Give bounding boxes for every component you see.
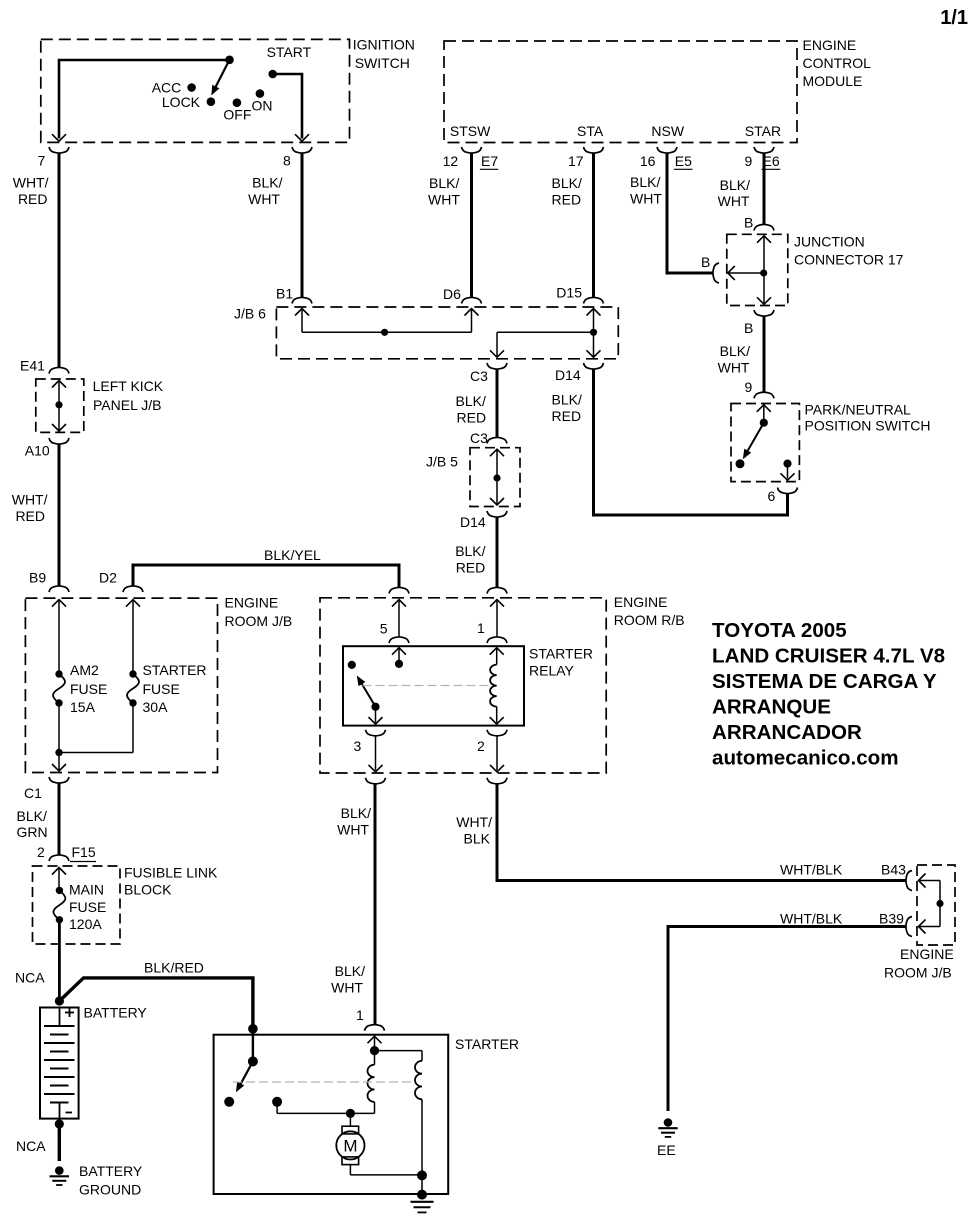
starter pull-in coil — [367, 1036, 379, 1113]
battery — [40, 1005, 147, 1119]
starter switch — [224, 1030, 258, 1107]
junction block J/B 5 — [426, 437, 520, 506]
svg-text:RED: RED — [15, 508, 45, 524]
wire BLK/RED D14 to R/B pin 1 — [455, 517, 507, 594]
fuse MAIN 120A — [53, 868, 106, 932]
svg-text:M: M — [343, 1137, 357, 1156]
page number 1/1 — [940, 7, 968, 29]
svg-text:JUNCTION: JUNCTION — [794, 234, 865, 250]
svg-text:BLK/: BLK/ — [630, 174, 660, 190]
svg-text:RED: RED — [457, 410, 487, 426]
svg-text:B: B — [701, 254, 710, 270]
fusible link block box — [33, 865, 219, 945]
svg-text:LAND CRUISER 4.7L V8: LAND CRUISER 4.7L V8 — [712, 645, 945, 668]
svg-text:A10: A10 — [25, 443, 50, 459]
wire BLK/WHT junction connector to park/neutral pin 9 — [718, 316, 764, 396]
svg-text:17: 17 — [568, 153, 584, 169]
svg-text:30A: 30A — [143, 699, 169, 715]
connector ECM pin 9 E6 (STAR) — [745, 147, 781, 169]
connector D6 — [443, 286, 482, 304]
connector F15 — [49, 855, 69, 861]
engine room R/B box — [320, 594, 685, 773]
svg-text:BLK/: BLK/ — [335, 963, 365, 979]
svg-text:C3: C3 — [470, 368, 488, 384]
svg-text:BLK/: BLK/ — [455, 543, 485, 559]
ignition switch box — [41, 37, 415, 143]
wire ignition internal to pin 7 — [52, 60, 230, 141]
junction connector 17 — [727, 234, 904, 306]
svg-text:BLK/: BLK/ — [429, 175, 459, 191]
connector B (bottom of junction connector) — [744, 310, 774, 336]
wire WHT/BLK EE to B39 — [668, 911, 912, 1112]
svg-text:NCA: NCA — [15, 970, 45, 986]
svg-text:RED: RED — [18, 191, 48, 207]
svg-text:WHT: WHT — [337, 822, 369, 838]
wire BLK/WHT STSW to D6 — [428, 153, 472, 299]
engine control module box — [444, 37, 871, 143]
svg-text:WHT/: WHT/ — [12, 492, 48, 508]
svg-text:C3: C3 — [470, 430, 488, 446]
connector D15 — [556, 285, 603, 304]
svg-text:BLK/: BLK/ — [552, 392, 582, 408]
svg-text:SISTEMA DE CARGA Y: SISTEMA DE CARGA Y — [712, 670, 937, 693]
svg-text:ON: ON — [252, 98, 273, 114]
svg-text:7: 7 — [38, 153, 46, 169]
svg-text:AM2: AM2 — [70, 662, 99, 678]
svg-text:WHT: WHT — [248, 191, 280, 207]
svg-text:1: 1 — [477, 620, 485, 636]
contact OFF — [223, 98, 251, 122]
svg-text:5: 5 — [380, 621, 388, 637]
svg-text:E5: E5 — [675, 153, 692, 169]
svg-text:STARTER: STARTER — [529, 646, 593, 662]
svg-text:FUSE: FUSE — [70, 681, 107, 697]
fuse STARTER 30A — [59, 600, 207, 752]
svg-text:B: B — [744, 320, 753, 336]
contact ON — [252, 89, 273, 113]
node battery positive — [55, 996, 64, 1005]
wire WHT/BLK relay pin 2 to B43 — [456, 783, 912, 890]
connector B (left of junction connector) — [701, 254, 719, 283]
motor M — [336, 1113, 364, 1164]
relay switch — [348, 648, 406, 724]
wire ignition internal START to pin 8 — [273, 74, 309, 141]
svg-text:D2: D2 — [99, 570, 117, 586]
svg-text:EE: EE — [657, 1142, 676, 1158]
svg-text:LOCK: LOCK — [162, 94, 201, 110]
starter ground — [411, 1190, 434, 1213]
connector park/neutral pin 9 — [754, 392, 774, 398]
connector D2 entry arrow — [126, 600, 140, 607]
connector relay pin 3 — [354, 730, 386, 784]
wire motor to starter ground — [350, 1165, 427, 1195]
contact START — [267, 44, 312, 78]
svg-text:GROUND: GROUND — [79, 1182, 141, 1198]
wire NCA battery negative — [16, 1119, 64, 1161]
svg-text:WHT/BLK: WHT/BLK — [780, 862, 843, 878]
svg-text:RED: RED — [552, 192, 582, 208]
connector C3 (J/B6 output) — [470, 363, 507, 384]
svg-text:120A: 120A — [69, 916, 102, 932]
wire WHT/RED pin 7 to E41 — [13, 153, 59, 369]
connector B (top of junction connector) — [744, 215, 774, 231]
starter relay box — [343, 646, 593, 726]
svg-text:STARTER: STARTER — [143, 662, 207, 678]
starter mechanical link — [233, 1081, 415, 1083]
svg-text:automecanico.com: automecanico.com — [712, 747, 899, 770]
starter hold-in coil — [375, 1051, 423, 1176]
svg-text:1: 1 — [356, 1007, 364, 1023]
svg-text:ENGINE: ENGINE — [225, 595, 279, 611]
svg-text:WHT/BLK: WHT/BLK — [780, 911, 843, 927]
svg-text:WHT: WHT — [428, 192, 460, 208]
svg-text:SWITCH: SWITCH — [355, 55, 410, 71]
svg-text:B9: B9 — [29, 570, 46, 586]
svg-text:POSITION SWITCH: POSITION SWITCH — [805, 418, 931, 434]
wire BLK/RED C3 to J/B5 — [456, 369, 498, 447]
connector ECM pin 16 E5 (NSW) — [640, 147, 693, 169]
svg-text:RELAY: RELAY — [529, 663, 575, 679]
svg-text:WHT: WHT — [630, 191, 662, 207]
junction left kick panel J/B — [20, 358, 164, 459]
svg-text:C1: C1 — [24, 785, 42, 801]
connector R/B pin 1 — [477, 600, 507, 643]
svg-text:9: 9 — [745, 153, 753, 169]
svg-text:B43: B43 — [881, 862, 906, 878]
wire BLK/GRN C1 to F15 — [17, 783, 97, 862]
svg-text:15A: 15A — [70, 699, 96, 715]
svg-text:J/B 5: J/B 5 — [426, 454, 458, 470]
svg-text:NCA: NCA — [16, 1138, 46, 1154]
svg-text:IGNITION: IGNITION — [353, 37, 415, 53]
svg-text:STAR: STAR — [745, 123, 781, 139]
svg-text:WHT: WHT — [718, 360, 750, 376]
svg-text:CONTROL: CONTROL — [803, 55, 872, 71]
relay coil — [490, 648, 504, 724]
svg-text:ENGINE: ENGINE — [900, 946, 954, 962]
svg-text:ARRANQUE: ARRANQUE — [712, 696, 831, 719]
connector relay pin 2 — [477, 730, 507, 784]
svg-text:PANEL J/B: PANEL J/B — [93, 397, 161, 413]
svg-text:GRN: GRN — [17, 824, 48, 840]
svg-text:F15: F15 — [72, 844, 96, 860]
svg-text:2: 2 — [37, 844, 45, 860]
svg-text:BLOCK: BLOCK — [124, 882, 172, 898]
svg-text:WHT/: WHT/ — [13, 175, 49, 191]
svg-text:RED: RED — [552, 408, 582, 424]
connector park/neutral pin 6 — [768, 488, 798, 505]
wire BLK/WHT STAR to junction connector B — [718, 153, 764, 226]
svg-text:STARTER: STARTER — [455, 1036, 519, 1052]
svg-text:WHT: WHT — [718, 193, 750, 209]
svg-text:ROOM R/B: ROOM R/B — [614, 612, 685, 628]
svg-text:D15: D15 — [556, 285, 582, 301]
svg-text:BLK/: BLK/ — [456, 393, 486, 409]
svg-text:RED: RED — [456, 559, 486, 575]
svg-text:MODULE: MODULE — [803, 73, 863, 89]
svg-text:J/B 6: J/B 6 — [234, 306, 266, 322]
svg-text:START: START — [267, 44, 312, 60]
svg-text:3: 3 — [354, 738, 362, 754]
ground EE — [657, 1118, 678, 1158]
battery ground — [50, 1163, 143, 1198]
connector D14 (J/B5 output) — [460, 511, 507, 530]
svg-text:B39: B39 — [879, 911, 904, 927]
connector ECM pin 12 E7 (STSW) — [443, 147, 499, 169]
svg-text:16: 16 — [640, 153, 656, 169]
svg-text:1/1: 1/1 — [940, 7, 968, 29]
svg-text:D14: D14 — [460, 514, 486, 530]
svg-text:FUSE: FUSE — [69, 899, 106, 915]
engine room J/B box (right) — [884, 865, 955, 981]
fuse AM2 15A — [53, 600, 107, 752]
wire NCA fuse to battery — [15, 920, 59, 1001]
svg-text:B1: B1 — [276, 286, 293, 302]
svg-text:BLK/: BLK/ — [341, 805, 371, 821]
svg-text:D14: D14 — [555, 367, 581, 383]
starter box — [214, 1035, 519, 1194]
svg-text:FUSIBLE LINK: FUSIBLE LINK — [124, 865, 218, 881]
connector B1 — [276, 286, 312, 304]
svg-text:B: B — [744, 215, 753, 231]
svg-text:ENGINE: ENGINE — [614, 594, 668, 610]
svg-text:9: 9 — [745, 379, 753, 395]
connector R/B pin 5 — [380, 600, 409, 643]
contact LOCK — [162, 94, 215, 110]
svg-text:LEFT KICK: LEFT KICK — [93, 378, 164, 394]
svg-text:ROOM J/B: ROOM J/B — [884, 965, 952, 981]
svg-text:STSW: STSW — [450, 123, 491, 139]
svg-text:CONNECTOR 17: CONNECTOR 17 — [794, 252, 904, 268]
svg-text:12: 12 — [443, 153, 459, 169]
park/neutral position switch box — [731, 402, 931, 482]
svg-text:BLK/RED: BLK/RED — [144, 960, 204, 976]
connector C1 — [24, 753, 69, 802]
svg-text:BLK/YEL: BLK/YEL — [264, 547, 321, 563]
wire BLK/RED battery to starter switch — [59, 960, 257, 1034]
park/neutral switch contacts — [736, 405, 795, 481]
svg-text:BLK/: BLK/ — [17, 808, 47, 824]
node fuse output junction — [55, 749, 62, 756]
svg-text:ARRANCADOR: ARRANCADOR — [712, 721, 862, 744]
relay mechanical link — [363, 685, 490, 687]
engine room J/B box (left) — [25, 595, 292, 773]
wire BLK/WHT relay pin 3 to starter pin 1 — [331, 783, 375, 1025]
svg-text:BLK/: BLK/ — [720, 343, 750, 359]
svg-text:2: 2 — [477, 738, 485, 754]
svg-text:ENGINE: ENGINE — [803, 37, 857, 53]
title block — [712, 619, 945, 770]
ignition switch rotor arm — [208, 56, 234, 98]
svg-text:BLK/: BLK/ — [720, 177, 750, 193]
contact ACC — [152, 80, 196, 96]
svg-text:6: 6 — [768, 488, 776, 504]
connector ECM pin 17 (STA) — [568, 147, 604, 169]
svg-text:TOYOTA 2005: TOYOTA 2005 — [712, 619, 847, 642]
svg-text:BATTERY: BATTERY — [79, 1163, 143, 1179]
svg-text:STA: STA — [577, 123, 604, 139]
wire WHT/RED A10 to B9 — [12, 444, 59, 587]
svg-text:NSW: NSW — [651, 123, 684, 139]
junction block J/B 6 — [234, 306, 618, 359]
svg-text:BLK/: BLK/ — [252, 175, 282, 191]
svg-text:E41: E41 — [20, 358, 45, 374]
connector ignition pin 7 — [38, 147, 70, 169]
connector B9 — [29, 570, 69, 607]
svg-text:PARK/NEUTRAL: PARK/NEUTRAL — [805, 402, 912, 418]
svg-text:8: 8 — [283, 153, 291, 169]
svg-text:ROOM J/B: ROOM J/B — [225, 613, 293, 629]
wire BLK/YEL D2 to R/B pin 5 — [99, 547, 409, 594]
svg-text:BLK/: BLK/ — [552, 175, 582, 191]
svg-text:WHT/: WHT/ — [456, 814, 492, 830]
svg-text:ACC: ACC — [152, 80, 182, 96]
wire BLK/WHT ignition pin 8 to B1 — [248, 147, 312, 298]
wire BLK/RED D14 to park/neutral pin 6 — [552, 363, 788, 515]
svg-text:BLK: BLK — [464, 831, 491, 847]
svg-text:FUSE: FUSE — [143, 681, 180, 697]
wire BLK/RED STA to D15 — [552, 153, 594, 299]
svg-text:D6: D6 — [443, 286, 461, 302]
svg-text:WHT: WHT — [331, 980, 363, 996]
connector starter pin 1 — [365, 1025, 385, 1044]
svg-text:E7: E7 — [481, 153, 498, 169]
svg-text:MAIN: MAIN — [69, 882, 104, 898]
svg-text:OFF: OFF — [223, 107, 251, 123]
wire BLK/WHT NSW to junction connector B — [630, 153, 714, 274]
node starter switch output — [272, 1097, 374, 1118]
svg-text:BATTERY: BATTERY — [84, 1005, 148, 1021]
